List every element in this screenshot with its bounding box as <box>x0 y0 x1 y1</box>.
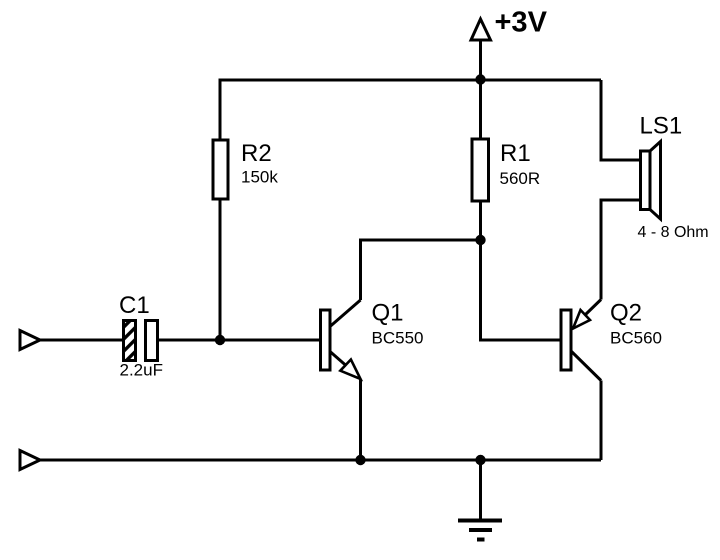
wire: speaker bottom to Q2 emitter <box>601 200 641 300</box>
node: R2 / base junction <box>215 335 225 345</box>
wire: top supply rail <box>220 80 601 140</box>
svg-text:LS1: LS1 <box>640 113 683 140</box>
wire: Q2 collector down to bottom rail <box>600 381 603 461</box>
Q1 emitter arrow <box>340 360 360 380</box>
ground <box>458 460 502 540</box>
Q1 collector diagonal <box>330 300 361 327</box>
LS1 cone <box>650 142 661 220</box>
wire: R1 bottom lead <box>479 201 482 240</box>
Q2 emitter arrow <box>573 310 590 329</box>
wire: input to C1 <box>40 339 123 342</box>
wire: Q1 collector run <box>361 240 481 300</box>
node: junction top rail / +3V stem <box>475 74 485 84</box>
svg-text:R1: R1 <box>500 140 531 167</box>
svg-text:C1: C1 <box>119 292 150 319</box>
svg-text:R2: R2 <box>241 140 272 167</box>
terminal input bottom <box>20 451 40 470</box>
Q2 emitter diagonal <box>585 300 601 316</box>
svg-text:Q2: Q2 <box>610 300 642 327</box>
wire: C1 to Q1 base <box>158 339 321 342</box>
wire: Q1 emitter down <box>359 379 362 460</box>
wire: top rail down to speaker top <box>601 80 641 160</box>
wire: R2 bottom lead <box>219 199 222 340</box>
wire: junction down to Q2 base <box>481 240 562 340</box>
node: ground junction <box>475 455 485 465</box>
power symbol +3V triangle <box>471 19 491 40</box>
resistor R1 <box>472 139 489 201</box>
Q2 base bar <box>561 310 571 370</box>
speaker LS1 <box>641 142 661 220</box>
transistor Q2 <box>561 300 601 381</box>
svg-text:Q1: Q1 <box>372 300 404 327</box>
svg-text:BC550: BC550 <box>372 329 424 348</box>
wire: bottom rail <box>40 459 601 462</box>
Q1 base bar <box>321 310 331 370</box>
Q1 emitter diagonal <box>330 352 346 366</box>
terminal input top <box>20 331 40 350</box>
wire: +3V stem down to R1 top <box>479 40 482 140</box>
svg-text:4 - 8 Ohm: 4 - 8 Ohm <box>638 224 709 241</box>
capacitor C1 right plate <box>146 321 158 361</box>
capacitor C1 hatched plate <box>124 321 136 361</box>
svg-text:2.2uF: 2.2uF <box>120 361 163 380</box>
LS1 body <box>641 151 651 210</box>
svg-text:+3V: +3V <box>495 7 548 39</box>
node: emitter / bottom rail <box>355 455 365 465</box>
resistor R2 <box>213 140 228 199</box>
svg-text:560R: 560R <box>500 169 541 188</box>
Q2 collector diagonal <box>572 352 602 381</box>
node: collector junction <box>475 235 485 245</box>
transistor Q1 <box>321 300 361 379</box>
svg-text:BC560: BC560 <box>610 329 662 348</box>
svg-text:150k: 150k <box>241 168 278 187</box>
